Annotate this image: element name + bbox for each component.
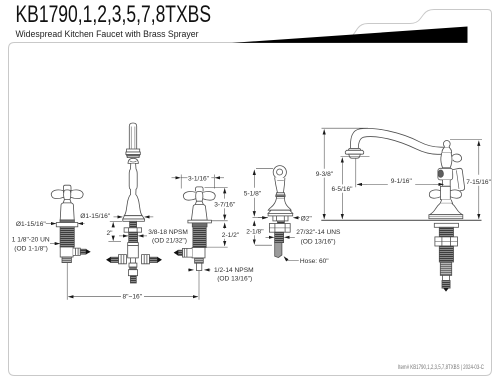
svg-text:27/32"-14 UNS: 27/32"-14 UNS bbox=[296, 229, 341, 236]
deck line bbox=[321, 219, 481, 221]
dim 7-15/16 bbox=[450, 139, 482, 141]
sprayer flange bbox=[268, 210, 293, 213]
svg-text:2": 2" bbox=[106, 230, 113, 237]
center shank threads bbox=[129, 232, 138, 242]
dim 2in ext lines bbox=[110, 220, 122, 222]
finial bell bbox=[442, 148, 452, 153]
spout curved tube bbox=[350, 128, 446, 154]
left valve body bbox=[60, 247, 73, 257]
sprayer shank bbox=[278, 221, 285, 224]
svg-text:Ø2": Ø2" bbox=[301, 216, 313, 223]
arrow 1-1/8 shank bbox=[50, 243, 60, 245]
center spout dome bbox=[128, 158, 138, 163]
dimensions of left faucet bbox=[46, 175, 228, 300]
dim 9-1/16 bbox=[355, 159, 357, 188]
sprayer dim 2-1/8 bbox=[253, 221, 255, 227]
body column bbox=[443, 180, 451, 186]
sprayer grip bbox=[275, 177, 285, 192]
svg-text:Item# KB1790,1,2,3,5,7,8TXBS |: Item# KB1790,1,2,3,5,7,8TXBS | 2024-03-C bbox=[398, 364, 484, 371]
sprayer dim 5-1/8 bbox=[256, 168, 273, 170]
svg-text:6-5/16": 6-5/16" bbox=[331, 186, 353, 193]
sprayer head bbox=[273, 166, 286, 179]
right handle flange bbox=[188, 220, 212, 223]
valve block bbox=[438, 168, 453, 180]
left handle bell base bbox=[63, 200, 71, 203]
dia arrows spout base bbox=[114, 216, 123, 218]
svg-text:Hose: 60": Hose: 60" bbox=[300, 258, 329, 265]
svg-text:Ø1-15/16": Ø1-15/16" bbox=[16, 221, 46, 228]
arrows 1/2-14 tailpiece bbox=[188, 269, 194, 271]
center coupling nut bbox=[124, 228, 142, 232]
dim 9-3/8 bbox=[322, 127, 369, 129]
deck washer bbox=[434, 223, 458, 227]
sprayer holder dome bbox=[268, 199, 291, 211]
svg-text:Ø1-15/16": Ø1-15/16" bbox=[80, 213, 110, 220]
center T right arm bbox=[142, 255, 150, 264]
sprayer lower flange bbox=[273, 216, 288, 221]
svg-text:KB1790,1,2,3,5,7,8TXBS: KB1790,1,2,3,5,7,8TXBS bbox=[16, 1, 212, 28]
right valve side fitting bbox=[183, 248, 193, 257]
svg-text:1/2-14 NPSM: 1/2-14 NPSM bbox=[214, 267, 254, 274]
svg-text:(OD 21/32"): (OD 21/32") bbox=[152, 238, 187, 245]
dim 8-16 ext lines bbox=[66, 263, 68, 300]
right handle cross bbox=[183, 187, 215, 201]
tailpiece bbox=[440, 262, 451, 275]
center spout tube bbox=[129, 123, 136, 149]
sprayer nut bbox=[269, 224, 290, 233]
sprayer dia arrows flange bbox=[258, 217, 267, 219]
bonnet skirt bbox=[440, 200, 452, 204]
left tailpiece bbox=[62, 257, 71, 263]
svg-text:(OD 1-1/8"): (OD 1-1/8") bbox=[14, 245, 47, 252]
left handle cross bbox=[51, 185, 83, 199]
left faucet front view bbox=[51, 123, 215, 283]
svg-text:2-1/8": 2-1/8" bbox=[246, 229, 264, 236]
center T left arm bbox=[119, 255, 127, 264]
svg-text:5-1/8": 5-1/8" bbox=[244, 191, 262, 198]
finial ball bbox=[443, 141, 450, 148]
left threaded shank bbox=[60, 227, 74, 247]
bell base bbox=[429, 203, 462, 214]
svg-text:3-7/16": 3-7/16" bbox=[214, 202, 236, 209]
right handle bell base bbox=[195, 201, 203, 204]
center spout body bbox=[124, 164, 142, 216]
supply connector bbox=[442, 281, 450, 289]
svg-text:(OD 13/16"): (OD 13/16") bbox=[217, 275, 252, 282]
svg-text:1 1/8"-20 UN: 1 1/8"-20 UN bbox=[12, 237, 50, 244]
dim 2-1/2 bbox=[205, 246, 228, 248]
spout neck cone bbox=[441, 153, 452, 168]
svg-text:(OD 13/16"): (OD 13/16") bbox=[301, 239, 336, 246]
svg-text:3-1/16": 3-1/16" bbox=[188, 175, 210, 182]
left valve side fitting bbox=[73, 248, 80, 255]
center spout collar bbox=[127, 149, 140, 152]
svg-text:9-1/16": 9-1/16" bbox=[391, 178, 413, 185]
dim 3-7/16 bbox=[205, 186, 228, 188]
spout outlet cap bbox=[348, 149, 361, 151]
right faucet side view bbox=[321, 128, 481, 291]
right tailpiece bbox=[195, 258, 204, 263]
hose leader bbox=[284, 257, 299, 261]
handle blade lever bbox=[453, 168, 465, 191]
sprayer collar bbox=[276, 193, 284, 195]
shank threads upper bbox=[439, 227, 453, 237]
center shank upper bbox=[130, 221, 137, 228]
dimensions right bbox=[253, 128, 483, 260]
center spout base flange bbox=[123, 216, 145, 219]
arrows 3/8 NPSM shank bbox=[119, 235, 128, 237]
supply tube bbox=[443, 275, 450, 280]
center valve body bbox=[128, 243, 139, 246]
lower cross arms bbox=[429, 190, 440, 198]
dim 8-16 line bbox=[68, 296, 121, 298]
dim 3-1/16 bbox=[180, 175, 182, 189]
sprayer hose bbox=[275, 243, 282, 258]
black corner wedge bbox=[232, 27, 468, 43]
svg-text:2-1/2": 2-1/2" bbox=[222, 232, 240, 239]
dia arrows left handle flange bbox=[46, 223, 56, 225]
right threaded shank bbox=[193, 227, 206, 248]
svg-text:7-15/16": 7-15/16" bbox=[466, 179, 491, 186]
shank threads lower bbox=[439, 246, 453, 262]
dim 6-5/16 bbox=[341, 155, 370, 157]
svg-text:8"~16": 8"~16" bbox=[123, 294, 143, 301]
sprayer thread arrows bbox=[266, 236, 274, 238]
mounting hex nut bbox=[435, 237, 458, 246]
center lower stub bbox=[130, 258, 135, 263]
svg-text:3/8-18 NPSM: 3/8-18 NPSM bbox=[148, 229, 188, 236]
sprayer bbox=[268, 166, 293, 258]
svg-text:Widespread Kitchen Faucet with: Widespread Kitchen Faucet with Brass Spr… bbox=[16, 29, 200, 40]
dim 2in vertical bbox=[112, 222, 114, 227]
svg-text:9-3/8": 9-3/8" bbox=[316, 171, 334, 178]
sprayer threads bbox=[275, 232, 284, 242]
right valve body bbox=[192, 248, 205, 258]
handle top ball bbox=[452, 154, 461, 162]
left handle flange bbox=[60, 220, 74, 223]
